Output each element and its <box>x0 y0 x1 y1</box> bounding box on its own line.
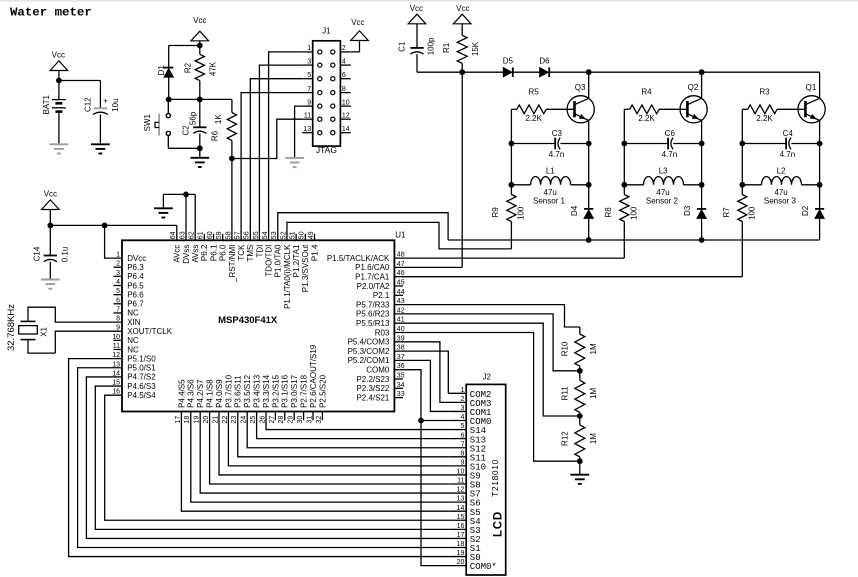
pin J1.5 stub <box>302 78 313 80</box>
pin J2.16 stub <box>448 528 466 530</box>
capacitor C2 <box>199 99 201 127</box>
svg-text:4.7n: 4.7n <box>549 150 565 159</box>
wire U1.46 to R7 bottom <box>394 276 742 278</box>
wire U1.62 AVss <box>194 194 196 240</box>
svg-text:63: 63 <box>179 231 186 239</box>
svg-text:COM0: COM0 <box>366 366 390 375</box>
pin J1.11 stub <box>302 118 313 120</box>
svg-text:4: 4 <box>116 279 120 286</box>
wire U1.20 to J2.11 <box>210 412 449 485</box>
svg-text:2.2K: 2.2K <box>638 114 655 123</box>
svg-text:P3.2/S15: P3.2/S15 <box>271 374 280 407</box>
junction D3 at diode rail <box>699 237 705 243</box>
wire J1.11 RST to R6/U1.58 <box>232 119 302 158</box>
svg-text:12: 12 <box>342 112 350 119</box>
svg-text:29: 29 <box>288 416 295 424</box>
svg-text:3: 3 <box>460 405 464 412</box>
svg-text:R8: R8 <box>604 207 613 218</box>
pin U1.28 stub <box>284 412 286 421</box>
svg-text:4.7n: 4.7n <box>780 150 796 159</box>
wire J1.7 TCK to U1.57 <box>241 93 302 241</box>
pin U1.7 stub <box>114 312 123 314</box>
svg-text:2: 2 <box>116 261 120 268</box>
svg-text:2: 2 <box>460 396 464 403</box>
junction R11/R12 <box>577 413 583 419</box>
wire Vcc rail to D1 <box>169 45 200 47</box>
svg-text:35: 35 <box>397 373 405 380</box>
svg-text:C3: C3 <box>552 129 563 138</box>
junction L1 left <box>509 182 515 188</box>
svg-text:P6.0: P6.0 <box>219 244 228 261</box>
svg-text:R1: R1 <box>442 42 451 53</box>
junction DVcc branch <box>102 223 108 229</box>
svg-text:P6.4: P6.4 <box>127 272 144 281</box>
wire U1.26 to J2.5 <box>266 412 448 430</box>
pin J1.2 circle <box>331 50 335 54</box>
svg-text:15K: 15K <box>471 41 480 56</box>
svg-text:P4.3/S6: P4.3/S6 <box>187 379 196 408</box>
svg-text:1: 1 <box>307 45 311 52</box>
svg-text:10: 10 <box>342 99 350 106</box>
ground C12 <box>91 143 110 145</box>
pin J1.11 circle <box>318 117 322 121</box>
diode D2 <box>815 208 824 210</box>
svg-text:L2: L2 <box>777 166 786 175</box>
pin J1.1 stub <box>302 51 313 53</box>
svg-text:1: 1 <box>460 387 464 394</box>
svg-text:P2.1: P2.1 <box>373 291 390 300</box>
resistor R2 <box>199 46 201 55</box>
wire U1.14 S2 to J2.17 <box>86 377 448 538</box>
wire Q3 emitter down <box>588 120 590 240</box>
pin J1.4 stub <box>340 64 350 66</box>
svg-text:U1: U1 <box>395 230 406 239</box>
svg-text:R2: R2 <box>184 62 193 73</box>
svg-text:P1.3/SVSOut: P1.3/SVSOut <box>301 244 310 292</box>
wire J1.9 to ground <box>295 106 303 158</box>
wire Sensor 1 left rail <box>510 109 512 194</box>
wire U1.53 P1.0/TA0 to sensor diode rail <box>278 213 448 241</box>
svg-text:45: 45 <box>397 280 405 287</box>
svg-text:3: 3 <box>116 270 120 277</box>
pin J2.1 stub <box>448 392 466 394</box>
svg-text:14: 14 <box>457 505 465 512</box>
pin J2.14 stub <box>448 510 466 512</box>
junction L3 right <box>699 182 705 188</box>
junction COM0 <box>418 418 424 424</box>
svg-text:18: 18 <box>457 541 465 548</box>
pin J2.2 stub <box>448 401 466 403</box>
pin J1.10 circle <box>331 104 335 108</box>
svg-text:R3: R3 <box>759 88 770 97</box>
svg-text:44: 44 <box>397 289 405 296</box>
wire J1.1 TDO to U1.54 <box>269 52 303 240</box>
svg-text:P5.7/R33: P5.7/R33 <box>356 300 390 309</box>
pin J1.7 stub <box>302 92 313 94</box>
junction Q3 collector at top rail <box>586 69 592 75</box>
pin J1.3 stub <box>302 64 313 66</box>
crystal X1 <box>21 320 36 322</box>
wire D1/R2 bottom rail <box>169 98 232 100</box>
inductor L2 <box>742 184 761 186</box>
svg-text:1M: 1M <box>589 343 598 354</box>
pin J1.12 stub <box>340 118 350 120</box>
wire Vcc rail to AVcc <box>50 224 177 226</box>
pin U1.2 stub <box>114 266 123 268</box>
wire U1.23 to J2.8 <box>238 412 448 457</box>
svg-text:4: 4 <box>460 414 464 421</box>
svg-text:10u: 10u <box>111 98 120 111</box>
svg-text:4.7n: 4.7n <box>662 150 678 159</box>
svg-text:62: 62 <box>189 231 196 239</box>
svg-text:30: 30 <box>297 416 304 424</box>
pin U1.50 stub <box>304 234 306 241</box>
transistor Q1 <box>798 96 825 123</box>
svg-text:9: 9 <box>307 99 311 106</box>
junction R12 bottom <box>577 458 583 464</box>
pin J1.2 stub <box>340 51 350 53</box>
diode D4 <box>584 208 593 210</box>
svg-text:49: 49 <box>308 231 315 239</box>
wire U1.38 COM2 to J2.1 <box>394 351 448 393</box>
wire U1.39 COM3 to J2.2 <box>394 342 448 403</box>
svg-text:10: 10 <box>457 469 465 476</box>
svg-text:7: 7 <box>460 441 464 448</box>
svg-text:R4: R4 <box>641 88 652 97</box>
svg-text:P5.2/COM1: P5.2/COM1 <box>348 356 390 365</box>
svg-text:3: 3 <box>307 58 311 65</box>
diode D5 <box>503 67 512 77</box>
svg-text:P3.1/S16: P3.1/S16 <box>281 374 290 407</box>
svg-text:NC: NC <box>127 309 139 318</box>
svg-text:Q2: Q2 <box>688 83 699 92</box>
svg-text:5: 5 <box>307 72 311 79</box>
pin U1.3 stub <box>114 275 123 277</box>
svg-text:13: 13 <box>303 126 311 133</box>
svg-text:DVcc: DVcc <box>127 254 146 263</box>
pin U1.34 stub <box>394 387 403 389</box>
svg-text:6: 6 <box>460 432 464 439</box>
svg-text:51: 51 <box>290 231 297 239</box>
pin J1.7 circle <box>318 91 322 95</box>
wire U1.63 DVss <box>185 194 187 240</box>
svg-text:J1: J1 <box>322 27 331 36</box>
pin U1.27 stub <box>274 412 276 421</box>
svg-text:TCK: TCK <box>237 244 246 261</box>
junction R2 top <box>197 43 203 49</box>
svg-text:R10: R10 <box>560 341 569 356</box>
svg-text:TMS: TMS <box>246 245 255 262</box>
capacitor C6 <box>624 143 668 145</box>
pin J1.10 stub <box>340 105 350 107</box>
svg-text:59: 59 <box>216 231 223 239</box>
pin J2.10 stub <box>448 474 466 476</box>
svg-text:32: 32 <box>316 416 323 424</box>
svg-text:NC: NC <box>127 336 139 345</box>
wire BAT1-C12 rail <box>59 80 101 82</box>
svg-text:R03: R03 <box>375 328 390 337</box>
svg-text:P6.6: P6.6 <box>127 290 144 299</box>
svg-text:Q1: Q1 <box>806 83 817 92</box>
svg-text:R5: R5 <box>528 88 539 97</box>
wire U1.24 to J2.7 <box>247 412 448 448</box>
wire X1 bottom to XOUT U1.9 <box>28 340 55 354</box>
svg-text:P1.7/CA1: P1.7/CA1 <box>355 273 390 282</box>
svg-text:C12: C12 <box>83 97 92 112</box>
svg-text:Q3: Q3 <box>575 83 586 92</box>
svg-text:P5.1/S0: P5.1/S0 <box>127 354 156 363</box>
svg-text:1: 1 <box>116 252 120 259</box>
pin J1.14 circle <box>331 131 335 135</box>
svg-text:1M: 1M <box>589 388 598 399</box>
ground DVss/AVss <box>154 207 173 209</box>
svg-text:Vcc: Vcc <box>44 190 57 199</box>
wire top rail C1 to D5 <box>417 71 503 73</box>
svg-text:18: 18 <box>184 416 191 424</box>
svg-text:_RST/NMI: _RST/NMI <box>228 245 237 283</box>
svg-text:11: 11 <box>113 343 120 350</box>
resistor R12 <box>579 416 581 425</box>
svg-text:5: 5 <box>460 423 464 430</box>
wire U1.13 S1 to J2.18 <box>78 368 449 548</box>
junction D1 bottom <box>166 97 172 103</box>
svg-text:BAT1: BAT1 <box>42 94 51 114</box>
svg-text:P4.1/S8: P4.1/S8 <box>206 379 215 408</box>
resistor R11 <box>579 371 581 381</box>
wire D5 to D6 <box>513 71 540 73</box>
junction L1 right <box>586 182 592 188</box>
pin U1.32 stub <box>321 412 323 421</box>
svg-text:P1.2/TA1: P1.2/TA1 <box>292 244 301 277</box>
svg-text:R12: R12 <box>560 431 569 446</box>
resistor R9 <box>507 195 516 222</box>
svg-text:P2.0/TA2: P2.0/TA2 <box>357 282 390 291</box>
pin J2.15 stub <box>448 519 466 521</box>
svg-text:P2.4/S21: P2.4/S21 <box>356 393 389 402</box>
svg-text:2.2K: 2.2K <box>756 114 773 123</box>
wire X1 top to XIN U1.8 <box>28 307 122 322</box>
svg-text:58: 58 <box>225 231 232 239</box>
svg-text:1M: 1M <box>589 433 598 444</box>
svg-text:20: 20 <box>457 559 465 566</box>
svg-text:D5: D5 <box>503 57 514 66</box>
resistor R8 <box>620 195 629 222</box>
svg-text:61: 61 <box>198 231 205 239</box>
pin J1.4 circle <box>331 63 335 67</box>
wire U1.16 S4 to J2.15 <box>105 395 449 520</box>
connector J1 <box>313 41 341 146</box>
svg-text:P2.6/CAOUT/S19: P2.6/CAOUT/S19 <box>309 344 318 408</box>
svg-text:19: 19 <box>457 550 465 557</box>
svg-text:J2: J2 <box>482 372 491 381</box>
svg-text:SW1: SW1 <box>143 113 152 131</box>
pin J2.18 stub <box>448 546 466 548</box>
pin J2.6 stub <box>448 438 466 440</box>
wire Q2 emitter down <box>701 120 703 240</box>
svg-text:8: 8 <box>116 316 120 323</box>
svg-text:P1.1/TA0(i)/MCLK: P1.1/TA0(i)/MCLK <box>283 244 292 309</box>
wire J1.5 TMS to U1.56 <box>250 79 302 241</box>
pin J2.9 stub <box>448 465 466 467</box>
ground BAT1 <box>50 143 69 145</box>
svg-text:P3.3/S14: P3.3/S14 <box>262 374 271 407</box>
pin J1.8 stub <box>340 92 350 94</box>
svg-text:32.768KHz: 32.768KHz <box>6 304 17 351</box>
svg-text:DVss: DVss <box>182 245 191 264</box>
junction C4 left <box>739 141 745 147</box>
svg-text:11: 11 <box>304 112 311 119</box>
pin U1.4 stub <box>114 285 123 287</box>
svg-text:COM0*: COM0* <box>470 562 497 572</box>
junction Q2 collector at top rail <box>699 69 705 75</box>
pin J1.5 circle <box>318 77 322 81</box>
svg-text:2.2K: 2.2K <box>525 114 542 123</box>
ground J1.9 <box>285 157 304 159</box>
capacitor C4 <box>742 143 786 145</box>
svg-text:D2: D2 <box>801 205 810 216</box>
svg-text:56p: 56p <box>189 111 198 125</box>
svg-text:P3.4/S13: P3.4/S13 <box>253 374 262 407</box>
svg-text:Vcc: Vcc <box>351 18 364 27</box>
junction L3 left <box>621 182 627 188</box>
pin J2.17 stub <box>448 537 466 539</box>
svg-text:LCD: LCD <box>493 511 505 537</box>
pin U1.11 stub <box>114 349 123 351</box>
pin U1.10 stub <box>114 339 123 341</box>
svg-text:P4.0/S9: P4.0/S9 <box>215 379 224 408</box>
svg-text:P2.7/S18: P2.7/S18 <box>300 374 309 407</box>
pin U1.29 stub <box>293 412 295 421</box>
wire D6 to Q1 collector rail <box>549 71 819 73</box>
svg-text:X1: X1 <box>39 326 48 336</box>
pin J1.12 circle <box>331 117 335 121</box>
resistor R10 <box>579 327 581 334</box>
capacitor C12 <box>99 81 101 109</box>
svg-text:P1.4: P1.4 <box>310 244 319 261</box>
svg-text:P3.7/S10: P3.7/S10 <box>224 374 233 407</box>
pin J1.1 circle <box>318 50 322 54</box>
pin J2.4 stub <box>448 420 466 422</box>
pin J1.14 stub <box>340 132 350 134</box>
svg-text:NC: NC <box>127 345 139 354</box>
ground R12 <box>579 461 581 475</box>
svg-text:+: + <box>103 97 108 106</box>
svg-text:P6.2: P6.2 <box>200 244 209 261</box>
svg-text:TDI: TDI <box>255 245 264 258</box>
svg-text:0.1u: 0.1u <box>61 247 70 263</box>
svg-text:10: 10 <box>112 334 120 341</box>
pin U1.59 stub <box>222 234 224 241</box>
wire Sensor 3 left rail <box>741 109 743 194</box>
svg-text:13: 13 <box>457 496 465 503</box>
svg-text:P3.0/S17: P3.0/S17 <box>290 374 299 407</box>
pin U1.49 stub <box>314 234 316 241</box>
svg-text:R7: R7 <box>722 207 731 218</box>
svg-text:Water meter: Water meter <box>10 6 92 20</box>
switch SW1 <box>167 99 169 113</box>
svg-text:P6.7: P6.7 <box>127 300 144 309</box>
svg-text:6: 6 <box>116 297 120 304</box>
pin J1.9 stub <box>302 105 313 107</box>
pin J2.11 stub <box>448 483 466 485</box>
svg-text:11: 11 <box>457 478 464 485</box>
pin J2.8 stub <box>448 456 466 458</box>
svg-text:23: 23 <box>231 416 238 424</box>
svg-text:P1.5/TACLK/ACK: P1.5/TACLK/ACK <box>327 254 390 263</box>
resistor R6 <box>231 99 233 112</box>
svg-text:100: 100 <box>517 206 526 220</box>
svg-text:60: 60 <box>207 231 214 239</box>
junction R2 bottom <box>197 97 203 103</box>
resistor R4 <box>624 108 629 110</box>
pin U1.30 stub <box>303 412 305 421</box>
svg-text:P6.3: P6.3 <box>127 263 144 272</box>
wire Q1 emitter down <box>819 120 821 240</box>
resistor R7 <box>738 195 747 222</box>
wire U1.18 to J2.13 <box>191 412 448 503</box>
svg-text:R9: R9 <box>491 207 500 218</box>
wire AVcc drop to U1.64 <box>176 225 178 240</box>
svg-text:6: 6 <box>342 72 346 79</box>
svg-text:P5.5/R13: P5.5/R13 <box>356 319 390 328</box>
pin J2.19 stub <box>448 556 466 558</box>
pin J2.3 stub <box>448 410 466 412</box>
pin J1.3 circle <box>318 63 322 67</box>
pin U1.44 stub <box>394 294 403 296</box>
wire Q3 collector <box>588 72 590 98</box>
resistor R1 <box>457 35 467 63</box>
svg-text:P4.2/S7: P4.2/S7 <box>196 379 205 408</box>
svg-text:1K: 1K <box>214 114 223 124</box>
wire Q1 collector <box>819 72 821 98</box>
wire U1.41 R13 to R11/R12 junction <box>394 323 579 416</box>
wire U1.47 to R1/D5 node <box>394 266 462 268</box>
connector J2 LCD body <box>466 384 506 575</box>
pin U1.33 stub <box>394 397 403 399</box>
svg-text:Vcc: Vcc <box>456 4 469 13</box>
wire U1.22 to J2.9 <box>228 412 448 466</box>
wire sensor diode bottom rail <box>448 239 819 241</box>
wire U1.42 R23 to R10/R11 junction <box>394 314 579 371</box>
IC U1 MSP430F41X body <box>122 240 394 411</box>
svg-text:L3: L3 <box>659 166 668 175</box>
wire U1.43 R33 to R10 top <box>394 305 579 327</box>
svg-text:P5.0/S1: P5.0/S1 <box>127 364 156 373</box>
svg-text:28: 28 <box>278 416 285 424</box>
pin J2.13 stub <box>448 501 466 503</box>
svg-text:P2.5/S20: P2.5/S20 <box>318 374 327 407</box>
svg-text:Vcc: Vcc <box>193 16 206 25</box>
svg-text:P3.6/S11: P3.6/S11 <box>234 375 243 408</box>
ground C2 <box>199 148 201 158</box>
wire U1.17 to J2.14 <box>181 412 448 512</box>
pin U1.61 stub <box>203 234 205 241</box>
pin J1.6 stub <box>340 78 350 80</box>
inductor L1 <box>511 184 530 186</box>
pin U1.51 stub <box>295 234 297 241</box>
svg-text:P6.5: P6.5 <box>127 281 144 290</box>
resistor R3 <box>742 108 747 110</box>
svg-text:D6: D6 <box>539 57 550 66</box>
svg-text:Vcc: Vcc <box>52 50 65 59</box>
svg-text:AVss: AVss <box>191 245 200 263</box>
svg-text:Vcc: Vcc <box>410 4 423 13</box>
wire U1.40 R03 to R12 bottom <box>394 333 579 462</box>
svg-text:C14: C14 <box>33 246 42 261</box>
svg-text:8: 8 <box>460 450 464 457</box>
svg-text:C1: C1 <box>398 41 407 52</box>
svg-text:12: 12 <box>457 487 465 494</box>
